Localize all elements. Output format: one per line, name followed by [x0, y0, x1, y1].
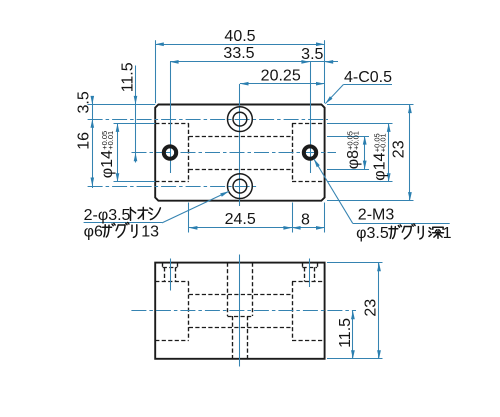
M3 tapped hole left: [164, 146, 176, 158]
svg-text:φ14: φ14: [99, 150, 116, 178]
svg-text:+0.01: +0.01: [352, 131, 361, 150]
hidden phi14 bore left (front view): [155, 281, 189, 283]
svg-text:2-φ3.5: 2-φ3.5: [84, 207, 131, 224]
centerline vertical left M3 (front view): [170, 259, 172, 291]
counterbore hole top (phi6/phi3.5): [228, 107, 253, 132]
extension lines front view right: [327, 262, 383, 264]
svg-text:13: 13: [141, 223, 159, 240]
centerline vertical center holes: [239, 84, 241, 206]
svg-text:+0.01: +0.01: [106, 131, 115, 150]
dimension 23 front view: [378, 263, 380, 359]
svg-text:2-M3: 2-M3: [358, 207, 395, 224]
svg-text:23: 23: [363, 299, 380, 317]
label 2-M3, phi3.5 counterbore depth 1, with leader: [353, 223, 450, 225]
centerline vertical center (front view): [239, 255, 241, 367]
hidden phi14 bore right (front view): [292, 281, 325, 283]
dimension phi14 right: [388, 123, 390, 182]
svg-text:11.5: 11.5: [337, 318, 354, 348]
dimension 33.5 and 3.5: [170, 61, 338, 63]
svg-text:40.5: 40.5: [224, 28, 255, 45]
svg-text:φ8: φ8: [345, 150, 362, 169]
extension lines right side: [327, 104, 414, 106]
extension line part top edge left: [88, 104, 156, 106]
dimension 40.5: [155, 44, 324, 46]
hidden phi6 counterbore center (front view): [227, 263, 229, 316]
extension lines top: [155, 40, 157, 103]
dimension 20.25: [240, 83, 325, 85]
dimension 11.5 front view: [352, 311, 354, 359]
centerline vertical right M3 (front view): [309, 259, 311, 288]
top view part outline: [155, 105, 324, 201]
centerline horizontal M3 row: [132, 152, 337, 154]
svg-text:8: 8: [301, 211, 310, 228]
centerline bore axis (front view): [131, 310, 356, 312]
svg-text:φ6: φ6: [84, 223, 103, 240]
dimension 11.5 top left: [135, 66, 137, 163]
hidden phi3.5 through hole center (front view): [232, 316, 234, 359]
dimension 23 right top view: [409, 105, 411, 201]
centerline horizontal top hole row: [88, 119, 328, 121]
front view part outline: [155, 263, 324, 359]
svg-text:+0.01: +0.01: [378, 133, 387, 152]
hidden phi8 bore (front view): [189, 294, 292, 296]
svg-text:3.5: 3.5: [76, 91, 93, 113]
svg-text:4-C0.5: 4-C0.5: [344, 69, 392, 86]
svg-text:33.5: 33.5: [223, 45, 254, 62]
hidden line phi14 counterbore left (top view): [155, 123, 189, 125]
svg-text:φ14: φ14: [372, 153, 389, 181]
dimension 16 left: [91, 178, 95, 187]
dimension 8: [292, 227, 325, 229]
hidden line phi14 counterbore right (top view): [292, 123, 325, 125]
dimension 3.5 left: [92, 97, 94, 189]
svg-text:3.5: 3.5: [301, 46, 323, 63]
centerline vertical right M3: [310, 62, 312, 173]
svg-text:16: 16: [76, 132, 93, 150]
svg-text:20.25: 20.25: [261, 68, 301, 85]
M3 tapped hole right: [304, 146, 316, 158]
extension lines below part: [188, 203, 190, 233]
extension lines phi14 left: [114, 123, 156, 125]
svg-text:11.5: 11.5: [120, 62, 137, 92]
svg-text:23: 23: [390, 140, 407, 158]
hidden M3 tap right (front view): [303, 267, 318, 269]
label 2-phi3.5 through, phi6 counterbore 13, with leader: [84, 222, 162, 224]
dimension 24.5: [189, 227, 292, 229]
label 4-C0.5 with leader: [343, 84, 392, 86]
dimension phi14 left: [117, 123, 119, 182]
svg-text:φ3.5: φ3.5: [356, 225, 389, 242]
hidden M3 tap left (front view): [163, 267, 178, 269]
dimension phi8 right: [364, 136, 366, 169]
centerline vertical left M3: [170, 62, 172, 173]
svg-text:1: 1: [443, 225, 452, 242]
centerline horizontal bottom hole row: [88, 186, 258, 188]
counterbore hole bottom (phi6/phi3.5): [228, 174, 253, 199]
hidden line phi8 bore (top view): [189, 136, 292, 138]
svg-text:24.5: 24.5: [225, 211, 256, 228]
